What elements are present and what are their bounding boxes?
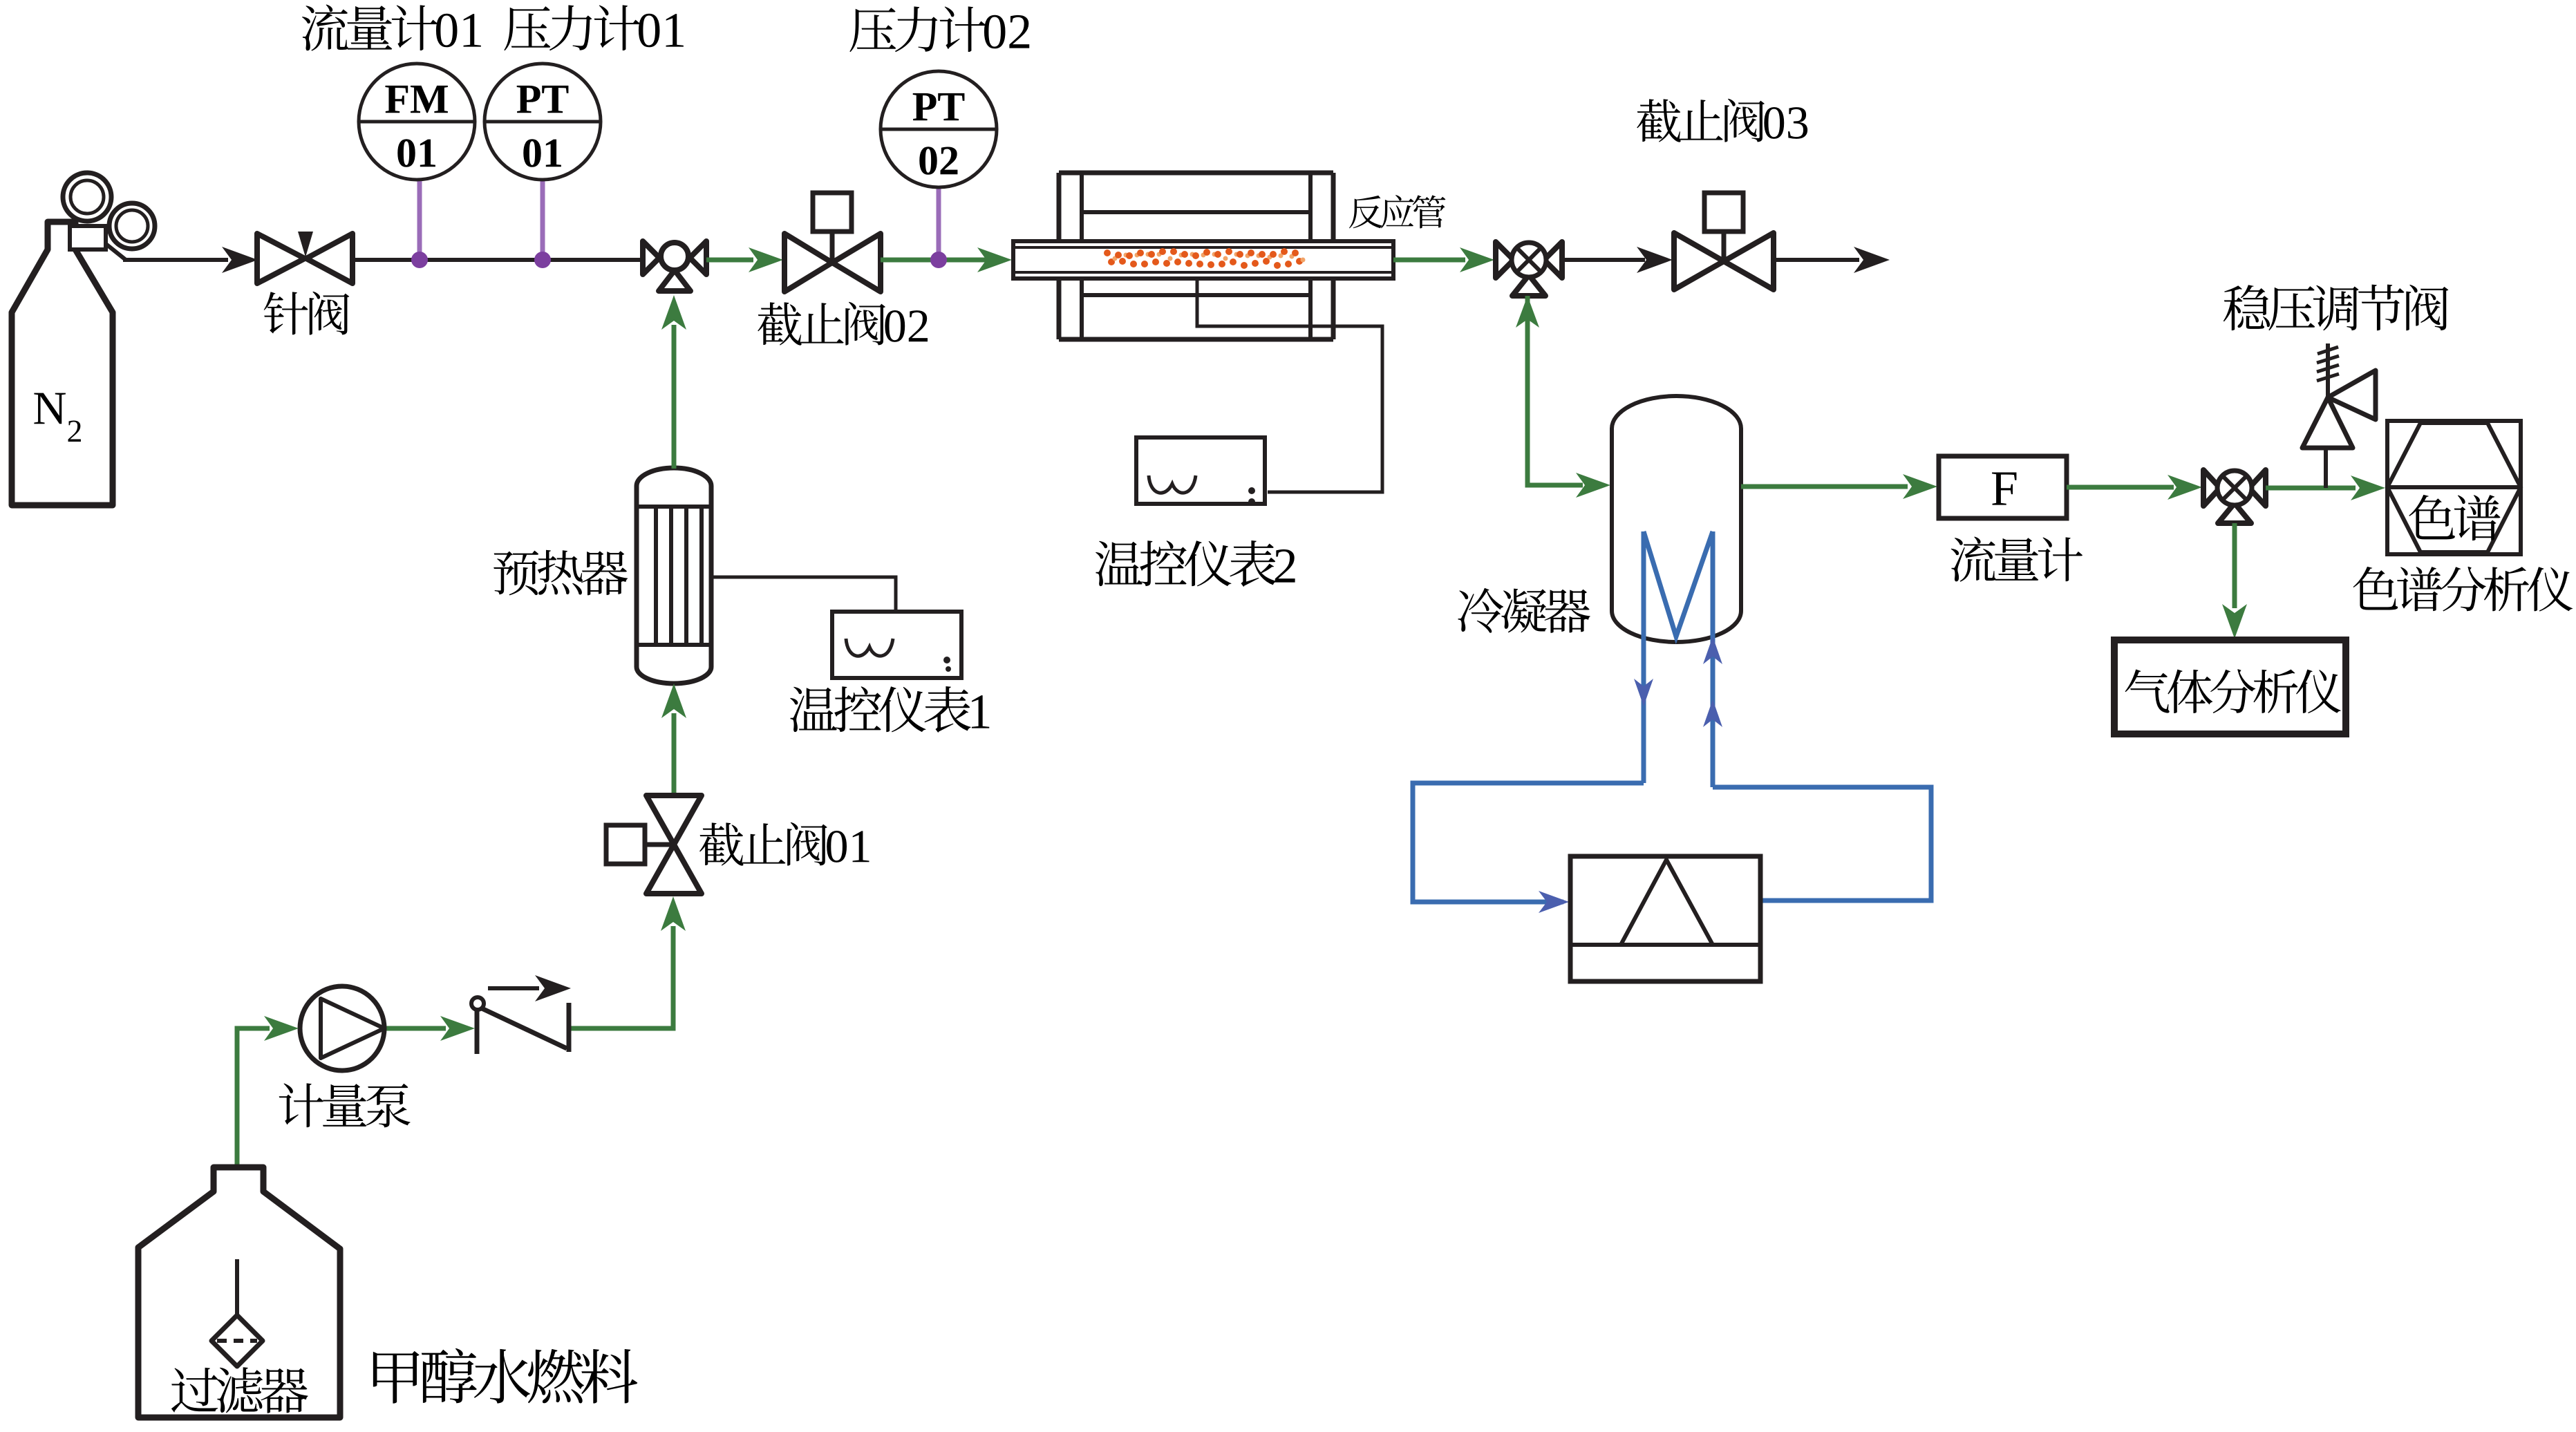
chiller unit xyxy=(1570,856,1760,981)
wire stop valve 01 to preheater xyxy=(661,684,686,795)
label 截止阀03 xyxy=(1637,99,1807,142)
label N2 xyxy=(34,393,81,442)
coolant loop piping xyxy=(1413,783,1931,913)
N2 gas cylinder xyxy=(12,173,155,505)
label 计量泵 xyxy=(279,1083,411,1127)
vent wire from stop valve 03 xyxy=(1774,247,1890,273)
wire needle valve to three-way valve V1 xyxy=(353,258,643,262)
chromatograph analyzer box 色谱 xyxy=(2387,421,2521,554)
stop valve 03 xyxy=(1674,193,1774,290)
pressure gauge instrument PT01 xyxy=(485,64,601,268)
preheater vessel 预热器 xyxy=(637,468,711,684)
three-way valve V3 xyxy=(2203,470,2266,523)
label 压力计01 xyxy=(504,5,684,50)
label 冷凝器 xyxy=(1458,588,1590,633)
reaction tube furnace body xyxy=(1059,173,1333,339)
wire V2 to stop valve 03 xyxy=(1562,247,1673,273)
label 色谱分析仪 xyxy=(2353,567,2573,612)
wire N2 regulator to needle valve xyxy=(123,247,258,273)
stop valve 02 xyxy=(784,193,881,292)
wire V3 down to gas analyzer xyxy=(2222,523,2247,639)
wire check valve to stop valve 01 xyxy=(569,896,686,1028)
stop valve 01 xyxy=(606,795,702,894)
label 反应管 xyxy=(1349,195,1445,228)
wire junction up to pressure regulating valve xyxy=(2324,448,2328,488)
label 截止阀01 xyxy=(699,822,869,866)
needle valve xyxy=(257,232,352,283)
label 流量计 xyxy=(1951,537,2083,582)
filter 过滤器 xyxy=(211,1259,263,1366)
label 温控仪表2 xyxy=(1096,540,1295,587)
wire condenser to flow meter F xyxy=(1741,474,1937,499)
pressure regulating valve 稳压调节阀 xyxy=(2302,343,2376,448)
condenser vessel xyxy=(1612,396,1741,642)
temperature controller 温控仪表2 xyxy=(1136,437,1265,505)
temperature controller 温控仪表1 xyxy=(711,577,961,678)
wire F to three-way valve V3 xyxy=(2067,475,2202,500)
wire pump to check valve xyxy=(384,1016,475,1041)
thermocouple wire to controller 2 xyxy=(1197,279,1382,492)
metering pump 计量泵 xyxy=(300,986,384,1071)
three-way valve V1 xyxy=(643,241,706,291)
wire tank to pump xyxy=(237,1016,299,1259)
three-way valve V2 xyxy=(1496,242,1562,296)
wire V1 to stop valve 02 xyxy=(706,247,783,272)
label 温控仪表1 xyxy=(790,686,989,733)
label 过滤器 xyxy=(171,1367,308,1413)
wire preheater to V1 xyxy=(661,295,686,469)
label 甲醇水燃料 xyxy=(373,1348,637,1404)
label 预热器 xyxy=(493,550,628,596)
reaction tube xyxy=(1013,241,1393,279)
label 流量计01 xyxy=(302,5,481,51)
wire V3 to chromatograph xyxy=(2266,475,2385,500)
gas analyzer box 气体分析仪 xyxy=(2114,640,2346,734)
flow meter instrument FM01 xyxy=(359,64,475,268)
fuel tank 甲醇水燃料 xyxy=(138,1167,340,1417)
wire stop valve 02 to reaction tube xyxy=(881,247,1012,272)
condenser coolant coil xyxy=(1634,531,1722,787)
label 稳压调节阀 xyxy=(2224,285,2449,331)
wire V2 down to condenser xyxy=(1516,296,1610,498)
label 压力计02 xyxy=(849,6,1029,52)
check valve xyxy=(471,975,571,1054)
label 截止阀02 xyxy=(758,302,928,346)
label needle valve xyxy=(264,292,350,335)
catalyst bed dots xyxy=(1104,248,1306,269)
flow meter F box xyxy=(1939,456,2067,518)
wire reaction tube to three-way valve V2 xyxy=(1393,247,1494,272)
pressure gauge instrument PT02 xyxy=(881,71,997,268)
